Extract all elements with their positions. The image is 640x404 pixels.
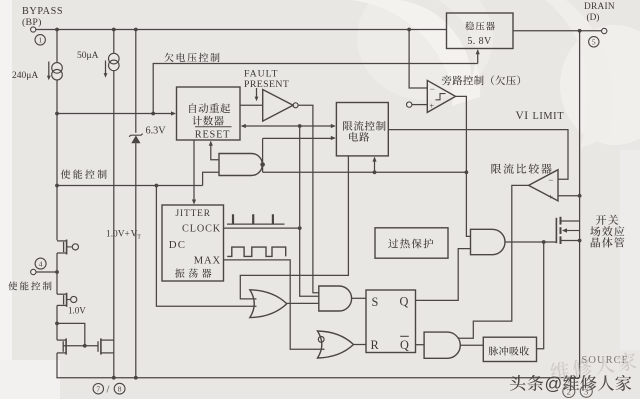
wire BP rail <box>36 29 447 31</box>
svg-text:S: S <box>372 295 379 309</box>
svg-text:MAX: MAX <box>194 256 221 267</box>
junction enable branch <box>155 184 159 188</box>
junction BP-50uA <box>112 28 116 32</box>
AND gate U7 set <box>319 286 352 311</box>
svg-text:4: 4 <box>39 259 43 268</box>
svg-text:3: 3 <box>584 386 588 396</box>
mirror FET Q4 <box>57 338 66 354</box>
BYPASS (BP) pin label <box>22 6 63 28</box>
wire bypass comparator minus input <box>409 30 427 89</box>
svg-text:PRESENT: PRESENT <box>244 79 289 90</box>
comparator U4 bypass control <box>427 80 455 112</box>
svg-text:5: 5 <box>592 38 596 47</box>
arrow into counter bottom <box>209 141 213 146</box>
junction undervoltage-rail <box>55 112 59 116</box>
wire to current limit block <box>263 137 335 139</box>
latch pin labels <box>371 295 410 352</box>
comparator U5 current limit <box>529 170 558 202</box>
wire drain vertical <box>579 31 581 378</box>
label 1.0V+VT <box>106 230 141 241</box>
light watermark <box>550 351 638 381</box>
svg-text:−: − <box>430 84 435 94</box>
svg-text:/: / <box>107 385 110 396</box>
wire S gate output <box>352 297 366 299</box>
svg-text:RESET: RESET <box>195 129 230 140</box>
toutiao logo watermark swoosh <box>352 0 612 148</box>
svg-text:DC: DC <box>169 239 186 251</box>
svg-text:−: − <box>548 175 553 185</box>
label enable control upper <box>61 169 107 178</box>
junction gate drive-bypass output <box>465 170 469 174</box>
svg-text:LIMIT: LIMIT <box>533 111 565 122</box>
wire arrow into limiter bottom <box>374 158 376 173</box>
max duty waveform icon <box>227 247 286 256</box>
thermal shutdown block <box>375 228 448 258</box>
arrow I2 direction <box>104 61 108 78</box>
wire limiter bottom output <box>240 156 348 299</box>
junction reset gate output <box>260 162 265 167</box>
svg-text:1.0V+: 1.0V+ <box>106 230 130 240</box>
wire counter-limiter handshake <box>242 125 335 127</box>
DRAIN terminal <box>602 28 607 33</box>
wire reset gate output branch <box>262 138 264 172</box>
arrow I1 direction <box>47 62 51 81</box>
current limit control block <box>336 103 388 156</box>
wire zener to source bus <box>135 143 137 378</box>
junction plus-drain <box>578 194 582 198</box>
arrow into limiter left lower <box>331 136 336 140</box>
pin numbers 7 8 <box>93 383 125 395</box>
wire regulator feed <box>477 50 479 63</box>
svg-text:1: 1 <box>38 36 42 45</box>
wire zener branch <box>135 30 137 133</box>
label switching FET <box>0 0 1 1</box>
wire driver branch to snubber <box>537 242 544 349</box>
junction mosfet source <box>578 239 582 243</box>
svg-text:@: @ <box>545 374 563 394</box>
junction bus-50uA <box>112 376 116 380</box>
wire counter to inverter <box>240 104 263 106</box>
svg-text:50μA: 50μA <box>77 51 99 61</box>
junction EN-rail <box>55 270 59 274</box>
svg-text:8: 8 <box>118 384 122 393</box>
arrow into counter right <box>241 124 246 128</box>
svg-text:7: 7 <box>96 384 100 393</box>
current source I2 50uA <box>109 30 120 71</box>
wire OR output to S AND gate <box>287 302 319 304</box>
wire rail segment between FETs <box>56 253 58 340</box>
auto-restart counter block <box>177 87 241 140</box>
svg-text:Q: Q <box>400 295 409 309</box>
junction BP-zener <box>134 28 138 32</box>
wire bypass comparator plus input <box>412 104 427 106</box>
label FAULT PRESENT <box>244 68 289 90</box>
arrow into limiter left upper <box>331 124 336 128</box>
svg-text:(D): (D) <box>587 12 600 23</box>
enable FET Q3 1.0V <box>57 293 77 307</box>
svg-text:R: R <box>371 338 380 352</box>
junction mirror gate branch <box>55 322 59 326</box>
power MOSFET Q1 <box>556 217 579 244</box>
label current limit control <box>343 121 385 131</box>
svg-text:(BP): (BP) <box>22 17 42 28</box>
arrow into regulator bottom <box>476 49 480 54</box>
wire reset gate lower input from enable <box>203 172 219 185</box>
AND gate U10 driver <box>471 229 505 254</box>
pin number 4 <box>35 258 46 269</box>
svg-text:FAULT: FAULT <box>244 68 278 79</box>
svg-text:+: + <box>429 101 434 111</box>
pin number 5 <box>589 37 599 47</box>
junction enable-rail <box>55 184 59 188</box>
wire blanking output to snubber <box>460 344 483 346</box>
pin number 1 <box>35 35 45 45</box>
label pulse snubber <box>489 346 529 355</box>
wire reset gate upper input <box>211 142 219 160</box>
mirror FET Q5 <box>98 338 114 354</box>
regulator block 5.8V <box>447 13 514 49</box>
wire VI LIMIT <box>388 130 568 180</box>
svg-text:Q: Q <box>400 338 409 352</box>
wire source bus <box>56 353 579 378</box>
dark watermark toutiao <box>510 374 562 394</box>
current source I1 240uA <box>52 30 63 241</box>
label thermal shutdown <box>388 239 433 249</box>
junction mirror gate <box>83 344 87 348</box>
junction gate drive-limiter <box>373 170 377 174</box>
inverter U2 fault present <box>263 90 298 122</box>
wire gate drive net <box>263 171 467 173</box>
svg-text:BYPASS: BYPASS <box>22 6 63 17</box>
arrow into oscillator top <box>192 200 196 205</box>
label regulator <box>465 21 495 30</box>
wire driver output to gate <box>505 241 556 243</box>
wire EN pin <box>36 271 57 273</box>
svg-text:6.3V: 6.3V <box>146 125 167 136</box>
AND gate U9 blanking <box>424 332 460 358</box>
OR gate U8 reset input with inverted input <box>318 331 354 358</box>
junction clock-fault net <box>298 226 302 230</box>
junction undervoltage corner <box>151 112 155 116</box>
label RESET with overline <box>195 127 232 141</box>
wire enable branch to OR gate <box>156 186 256 307</box>
wire regulator to drain <box>513 30 602 32</box>
junction drain branch <box>578 29 582 33</box>
svg-text:JITTER: JITTER <box>176 209 211 219</box>
junction BP-comparator <box>407 28 411 32</box>
wire undervoltage control net <box>153 64 478 114</box>
wire comparator plus to drain <box>558 195 580 197</box>
wire Qbar output <box>416 344 425 346</box>
label undervoltage control <box>164 53 219 62</box>
wire inverter output to S gate <box>298 105 319 292</box>
wire undervoltage to counter <box>57 113 174 115</box>
EN sense terminal <box>407 102 412 107</box>
wire comparator output to blanking gate <box>458 185 529 338</box>
wire 50uA to sense FET <box>113 71 115 378</box>
arrow FAULT PRESENT <box>255 88 259 101</box>
zener diode VR1 6.3V <box>129 134 142 144</box>
arrow into counter left <box>171 111 176 115</box>
svg-text:240μA: 240μA <box>12 71 38 81</box>
junction handshake branch <box>298 124 302 128</box>
wire R gate output <box>354 344 367 346</box>
label enable control pin <box>8 281 51 290</box>
inverting bubble <box>318 337 324 343</box>
wire mirror gate link <box>57 323 85 345</box>
svg-text:VI: VI <box>516 110 529 122</box>
svg-text:2: 2 <box>567 387 571 397</box>
oscillator block <box>162 205 224 281</box>
wire CLOCK output <box>224 227 300 229</box>
label DRAIN (D) <box>584 2 615 23</box>
pin numbers 2 3 <box>563 385 593 397</box>
wire Q output to driver gate <box>416 249 471 301</box>
label current limit comparator <box>491 163 551 173</box>
label VI LIMIT <box>516 110 565 122</box>
svg-text:DRAIN: DRAIN <box>584 2 615 12</box>
junction bus-zener <box>134 376 138 380</box>
svg-text:T: T <box>137 235 141 241</box>
wire enable control line <box>57 185 203 187</box>
wire fault net down to S gate <box>300 126 319 296</box>
label oscillator <box>175 268 211 277</box>
label auto-restart counter <box>0 0 1 1</box>
svg-text:CLOCK: CLOCK <box>182 223 221 234</box>
svg-text:1.0V: 1.0V <box>68 305 86 315</box>
wire counter to oscillator <box>193 140 195 203</box>
wire bypass comparator output <box>456 96 471 236</box>
wire mirror gates <box>63 345 98 347</box>
AND gate U3 reset <box>219 154 262 176</box>
enable FET Q2 1.0V+VT <box>57 240 79 255</box>
oscillator labels <box>169 209 221 267</box>
junction BP-240uA <box>55 28 59 32</box>
BYPASS terminal <box>31 27 36 32</box>
label bypass control undervoltage <box>442 75 520 85</box>
clock pulse waveform icon <box>227 223 285 225</box>
arrow into limiter bottom head <box>372 157 376 162</box>
junction driver branch <box>542 240 546 244</box>
svg-text:5. 8V: 5. 8V <box>467 36 492 47</box>
OR gate U6 <box>250 290 287 318</box>
SR latch block <box>366 290 416 353</box>
pulse snubber block <box>483 337 536 361</box>
EN terminal <box>31 269 36 274</box>
svg-text:+: + <box>548 192 553 202</box>
wire MAX output to R gate <box>224 260 325 349</box>
